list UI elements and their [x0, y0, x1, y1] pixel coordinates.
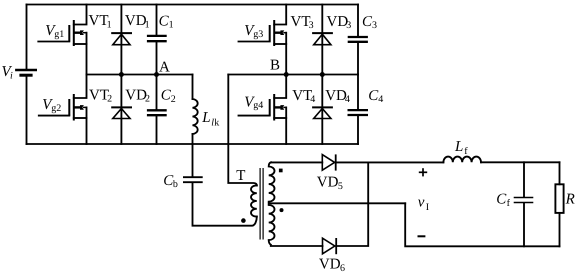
capacitor Cf: [514, 162, 534, 246]
label VD4: [325, 88, 350, 105]
label VT4: [292, 88, 315, 105]
svg-text:1: 1: [145, 19, 150, 30]
svg-text:3: 3: [346, 20, 351, 31]
wire top rail: [27, 4, 359, 6]
svg-text:g2: g2: [51, 103, 61, 114]
capacitor C3: [348, 5, 368, 75]
label C2: [161, 88, 176, 105]
label Vg2: [42, 97, 61, 114]
svg-text:3: 3: [372, 20, 377, 31]
wire secondary top to VD5 anode: [271, 161, 322, 163]
svg-text:VD: VD: [125, 87, 147, 103]
svg-text:A: A: [159, 59, 170, 75]
diode VD5: [322, 154, 335, 170]
capacitor C1: [147, 5, 167, 75]
svg-text:VT: VT: [89, 87, 109, 103]
svg-text:VT: VT: [291, 14, 311, 30]
svg-text:g1: g1: [54, 29, 64, 40]
capacitor C2: [147, 75, 167, 145]
svg-text:g4: g4: [253, 100, 263, 111]
svg-text:6: 6: [340, 263, 345, 272]
svg-text:v: v: [418, 194, 425, 210]
wire load R to bottom rail: [559, 213, 561, 246]
diode VD1: [111, 5, 132, 75]
transistor VT4: [239, 75, 287, 145]
svg-text:4: 4: [310, 94, 315, 105]
wire node B to primary top: [228, 75, 256, 186]
transistor VT2: [39, 75, 87, 145]
svg-text:g3: g3: [253, 29, 263, 40]
label Vg3: [244, 23, 263, 40]
svg-text:L: L: [201, 110, 210, 126]
capacitor C4: [348, 75, 369, 145]
resistor R: [555, 184, 563, 213]
label + output polarity: [419, 168, 427, 176]
diode VD3: [312, 5, 333, 75]
svg-text:k: k: [214, 117, 219, 128]
wire Cb to primary bottom: [193, 183, 257, 225]
wire secondary center tap: [269, 202, 406, 204]
wire mid rail A (left leg midpoint): [87, 74, 193, 76]
junction dot C1/C2 on rail A: [154, 72, 159, 77]
svg-text:2: 2: [107, 94, 112, 105]
inductor Llk: [193, 99, 198, 134]
transistor VT1: [38, 5, 86, 75]
label VT2: [89, 87, 112, 104]
transformer secondary top winding: [269, 162, 275, 201]
svg-text:4: 4: [345, 94, 350, 105]
wire mid rail B (right leg midpoint): [228, 74, 358, 76]
svg-text:VD: VD: [319, 257, 341, 272]
label Vi: [2, 64, 14, 81]
junction dot VD3/VD4 on rail B: [320, 72, 325, 77]
svg-text:2: 2: [171, 94, 176, 105]
diode VD6: [323, 238, 337, 254]
wire VD5 cathode to Lf: [336, 161, 444, 163]
junction dot VT3/VT4 on rail B: [284, 72, 289, 77]
label Llk: [201, 110, 219, 129]
svg-text:I: I: [426, 202, 429, 213]
wire VD6 cathode up to output positive rail: [336, 162, 368, 246]
wire left rail lower (Vi minus lead): [26, 76, 28, 144]
wire node A to Llk: [192, 75, 194, 100]
capacitor Cb: [183, 177, 203, 182]
label Vg4: [244, 94, 263, 111]
label C3: [362, 14, 377, 31]
transistor VT3: [239, 5, 287, 75]
polarity dot primary: [241, 218, 246, 223]
transformer primary winding: [251, 185, 257, 216]
label Cb: [163, 173, 178, 190]
label C4: [368, 88, 383, 105]
svg-text:VT: VT: [292, 88, 312, 104]
svg-text:2: 2: [145, 94, 150, 105]
label VD6: [319, 257, 345, 272]
label - output polarity: [418, 235, 426, 237]
label VT1: [89, 13, 112, 30]
wire right edge to load R: [559, 162, 561, 184]
label VD3: [327, 14, 352, 31]
label Lf: [454, 139, 468, 157]
wire secondary bottom to VD6 anode: [271, 245, 323, 247]
diode VD4: [312, 75, 333, 145]
svg-text:VT: VT: [89, 13, 109, 29]
label vI rectified voltage: [418, 194, 429, 213]
label C1: [159, 13, 174, 30]
label VD2: [125, 87, 150, 104]
svg-text:VD: VD: [327, 14, 349, 30]
polarity square mark secondary top: [279, 169, 283, 173]
svg-text:b: b: [173, 179, 178, 190]
svg-text:i: i: [10, 70, 13, 81]
wire Lf to output top right: [481, 161, 560, 163]
svg-text:L: L: [454, 139, 463, 155]
wire center tap down to output negative rail: [405, 203, 559, 246]
label VD5: [317, 175, 343, 193]
svg-text:VD: VD: [325, 88, 347, 104]
wire bottom rail: [27, 143, 359, 145]
svg-text:T: T: [236, 168, 245, 184]
wire Llk to Cb: [192, 134, 194, 176]
svg-text:5: 5: [338, 181, 343, 192]
svg-text:VD: VD: [125, 13, 147, 29]
inductor Lf: [443, 157, 481, 163]
label VD1: [125, 13, 150, 30]
label VT3: [291, 14, 314, 31]
junction dot VD1/VD2 on rail A: [119, 72, 124, 77]
svg-text:B: B: [270, 58, 280, 74]
label Cf: [496, 191, 510, 209]
transformer core: [260, 168, 263, 240]
svg-text:VD: VD: [317, 175, 339, 191]
svg-text:1: 1: [107, 19, 112, 30]
svg-text:3: 3: [309, 20, 314, 31]
polarity dot secondary center: [280, 208, 284, 212]
battery Vi: [15, 70, 37, 75]
svg-text:R: R: [565, 191, 575, 207]
wire left rail upper (Vi plus lead): [26, 5, 28, 69]
svg-text:1: 1: [169, 20, 174, 31]
diode VD2: [111, 75, 132, 145]
label Vg1: [45, 23, 64, 40]
svg-text:4: 4: [378, 94, 383, 105]
transformer secondary bottom winding: [269, 205, 275, 245]
